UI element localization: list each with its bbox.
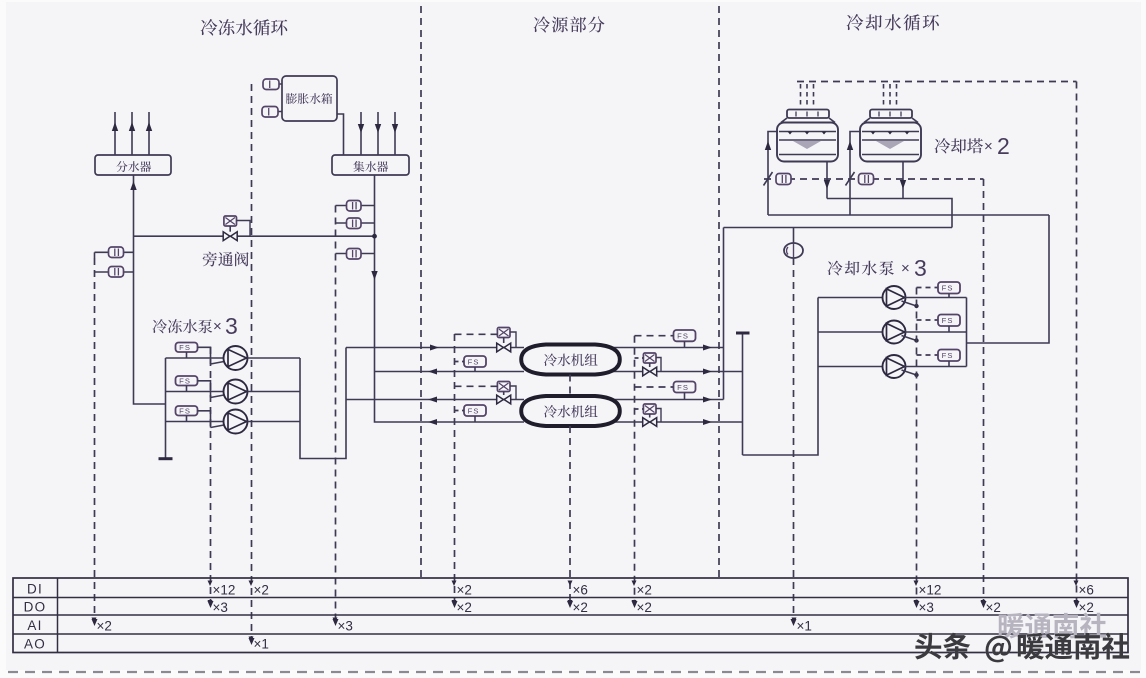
svg-text:×12: ×12 <box>213 583 236 598</box>
collector inlet line 1 <box>360 112 362 155</box>
CP1 wire tap diagonal <box>902 301 917 306</box>
tank level switch LS1 <box>263 79 279 90</box>
pump 2 suction line <box>166 391 224 393</box>
vertical B end cap <box>736 332 750 335</box>
distributor outlet arrow 3 <box>146 122 152 131</box>
tower 1 outlet arrow <box>824 180 830 189</box>
pressure sensor P1 <box>109 247 124 258</box>
cooling FS1 stub <box>948 294 950 298</box>
label 膨胀水箱 expansion tank <box>286 93 332 104</box>
tower return header <box>768 214 1049 216</box>
label 分水器 distributor <box>116 161 151 172</box>
distributor outlet line 2 <box>131 112 133 155</box>
svg-text:×2: ×2 <box>254 583 269 598</box>
chilled pump P2 <box>224 380 248 404</box>
tower basin line <box>779 154 836 156</box>
chiller control dashed drop x=570 <box>569 375 571 397</box>
tower neck <box>781 118 787 123</box>
svg-text:×: × <box>901 260 910 277</box>
pump 3 suction line <box>166 421 224 423</box>
FS2 wire tap to pump <box>211 395 225 398</box>
FS3 sensing wire <box>198 411 211 428</box>
label 集水器 collector <box>353 161 388 172</box>
riser 1 crossing tick <box>764 172 773 186</box>
cooling flow switch FS2 <box>938 315 960 327</box>
pressure sensor stub 2 <box>95 271 134 273</box>
cooling FS3 stub <box>948 361 950 367</box>
arrow into DO row for column 454 <box>452 601 458 608</box>
chilled pump P1 <box>224 346 248 370</box>
svg-text:×2: ×2 <box>986 600 1001 615</box>
FS1R stub <box>684 341 686 347</box>
DI count x6 (col 570) <box>568 581 573 587</box>
tower 2 riser <box>850 132 861 216</box>
arrow into AI row for column 793 <box>791 619 797 626</box>
FS1 sensing wire <box>198 347 211 364</box>
FS3 wire tap to pump <box>211 425 225 428</box>
svg-text:×1: ×1 <box>797 619 812 634</box>
svg-text:FS: FS <box>942 351 954 360</box>
tower 1 riser <box>768 132 778 216</box>
expansion tank box <box>282 76 337 121</box>
svg-text:FS: FS <box>677 332 689 341</box>
label 冷却塔 cooling towers <box>935 138 983 153</box>
tower fill line <box>862 131 919 133</box>
flow arrow row3 left <box>428 397 437 403</box>
svg-text:×2: ×2 <box>573 600 588 615</box>
pump 1 discharge line <box>248 357 301 359</box>
FS2L stub <box>474 416 476 422</box>
svg-text:×3: ×3 <box>338 619 353 634</box>
svg-text:×2: ×2 <box>637 583 652 598</box>
collector sensor T1 <box>347 201 362 212</box>
cooling FS2 stub <box>948 326 950 332</box>
tower outlet header <box>827 199 952 228</box>
cooling pump 1 suction stub <box>818 297 883 299</box>
AI count x3 (col 335) <box>333 618 338 624</box>
svg-text:×: × <box>984 138 993 155</box>
label 冷却水泵 cooling water pumps <box>828 261 894 276</box>
fan control dashed drop x=1076 <box>1076 82 1078 605</box>
CP3 wire node <box>914 373 918 377</box>
IO table label column divider <box>57 578 59 653</box>
label 旁通阀 bypass valve <box>203 252 249 267</box>
tower valve dashed line y=179 <box>764 178 984 180</box>
AO count x1 (col 251) <box>249 637 254 643</box>
chiller unit 2 冷水机组 <box>521 396 620 426</box>
IO table row line 2 <box>13 614 1128 616</box>
cooling pump 2 suction stub <box>818 331 883 333</box>
distributor outlet arrow 1 <box>112 122 118 131</box>
DO count x2 (col 454) <box>452 600 457 606</box>
arrow into AI row for column 335 <box>333 619 339 626</box>
tank drain pipe to collector <box>337 114 344 155</box>
flow arrow row1 left <box>430 345 439 351</box>
tower water level <box>779 139 836 141</box>
FS1 stub <box>186 352 188 358</box>
svg-text:DO: DO <box>24 600 47 615</box>
collector inlet line 3 <box>394 112 396 155</box>
svg-text:FS: FS <box>677 383 689 392</box>
svg-text:AO: AO <box>24 637 46 652</box>
cooling FS3 dashed stub <box>917 354 939 356</box>
FS2 stub <box>186 386 188 392</box>
pump 2 discharge line <box>248 391 301 393</box>
DO count x2 (col 983) <box>981 600 986 606</box>
supply riser up arrow <box>130 181 136 190</box>
IO table row line 3 <box>13 633 1128 635</box>
condenser supply vertical A <box>723 228 725 400</box>
right control bracket dashed vertical x=634 <box>634 336 636 604</box>
cooling discharge header <box>966 298 968 367</box>
return riser pipe <box>375 175 525 422</box>
svg-text:AI: AI <box>27 618 42 633</box>
DI count x12 (col 210) <box>208 581 213 587</box>
collector box 集水器 <box>332 155 409 175</box>
flow arrow row1 right <box>703 345 712 351</box>
cooling flow switch FS1 <box>938 282 960 294</box>
svg-text:×2: ×2 <box>97 619 112 634</box>
flow arrow row4 left <box>428 419 437 425</box>
distributor box 分水器 <box>95 155 171 175</box>
return riser down arrow <box>371 271 377 280</box>
DI count x6 (col 1076) <box>1074 581 1079 587</box>
pump discharge header <box>300 348 346 459</box>
condenser return vertical B <box>742 333 744 455</box>
chiller1 inlet valve V1L <box>497 328 510 338</box>
arrow into DO row for column 916 <box>914 601 920 608</box>
title: cold source section 冷源部分 <box>534 16 605 32</box>
distributor outlet line 1 <box>114 112 116 155</box>
collector inlet arrow 1 <box>358 124 364 133</box>
dashed stub to FS2L <box>455 410 465 412</box>
label 冷水机组 chiller 1 <box>544 353 598 366</box>
collector inlet line 2 <box>377 112 379 155</box>
control dashed drop x=916 (cooling pumps) <box>916 288 918 605</box>
svg-text:3: 3 <box>914 255 927 281</box>
watermark 头条@暖通南社 <box>915 633 1129 663</box>
arrow into DO row for column 210 <box>208 601 214 608</box>
tower 2 riser up arrow <box>847 141 853 150</box>
bypass pipe <box>134 235 375 237</box>
tower valve MV2 <box>859 174 874 185</box>
tower neck <box>864 118 870 123</box>
tower1 fan dashed wires <box>800 84 802 108</box>
supply riser pipe <box>134 175 166 404</box>
condenser valve V1R <box>643 353 656 363</box>
svg-text:FS: FS <box>179 343 191 352</box>
cooling tower fan lid <box>870 110 912 119</box>
control dashed drop x=335 (collector sensors) <box>335 206 337 623</box>
pump suction header <box>165 358 167 458</box>
flow switch FS3 (chilled) <box>176 406 198 416</box>
riser 2 crossing tick <box>846 172 855 186</box>
tower valve dashed drop x=983 <box>983 179 985 604</box>
section divider dashed line right <box>718 6 720 578</box>
tank lower port stub <box>262 111 282 113</box>
flow switch FS1R <box>674 330 696 341</box>
FS3 stub <box>186 416 188 422</box>
pump 1 suction line <box>166 357 224 359</box>
collector sensor T3 <box>347 249 362 260</box>
dashed wire to FS2R <box>635 386 674 388</box>
arrow into AI row for column 94 <box>92 619 98 626</box>
DO count x2 (col 1076) <box>1074 600 1079 606</box>
cooling discharge outlet run <box>967 215 1050 343</box>
arrow into DO row for column 1076 <box>1074 601 1080 608</box>
control dashed drop x=94 (pressure sensors) <box>94 258 96 622</box>
condenser valve V2R <box>643 404 656 414</box>
control dashed drop x=793 (temp sensor) <box>793 258 795 622</box>
cooling pump CP3 <box>883 355 906 378</box>
CP1 wire node <box>914 304 918 308</box>
collector sensor T2 <box>347 218 362 229</box>
DO count x2 (col 570) <box>568 600 573 606</box>
pressure sensor stub 1 <box>95 251 134 253</box>
flow arrow row2 left <box>428 369 437 375</box>
FS2 sensing wire <box>198 381 211 398</box>
temperature sensor stub <box>793 228 795 244</box>
DO count x2 (col 634) <box>632 600 637 606</box>
dashed stub to V1R <box>635 357 644 359</box>
flow arrow row2 right <box>703 369 712 375</box>
CP3 wire tap diagonal <box>902 370 917 375</box>
cooling FS1 dashed stub <box>917 287 939 289</box>
cooling flow switch FS3 <box>938 350 960 362</box>
cooling tower fan lid <box>787 110 829 119</box>
dashed wire to FS1R <box>635 335 674 337</box>
AI count x2 (col 94) <box>92 618 97 624</box>
collector inlet arrow 2 <box>375 124 381 133</box>
svg-text:×6: ×6 <box>573 583 588 598</box>
DI count x2 (col 251) <box>249 581 254 587</box>
svg-text:FS: FS <box>942 316 954 325</box>
flow switch FS2R <box>674 382 696 393</box>
svg-text:×2: ×2 <box>637 600 652 615</box>
cooling tower body <box>860 123 921 162</box>
condenser supply header <box>724 227 953 229</box>
tower fill line <box>779 131 836 133</box>
svg-text:DI: DI <box>27 582 43 597</box>
pump suction header end cap <box>159 457 173 460</box>
pump 3 discharge line <box>248 421 301 423</box>
flow arrow row3 right <box>703 397 712 403</box>
cooling pump 3 suction stub <box>818 366 883 368</box>
tower 2 outlet pipe <box>902 162 904 199</box>
distributor outlet arrow 2 <box>129 122 135 131</box>
collector sensor stub 2 <box>336 222 375 224</box>
svg-text:FS: FS <box>179 407 191 416</box>
svg-text:×3: ×3 <box>919 600 934 615</box>
chiller2 inlet valve V2L <box>497 382 510 392</box>
tower valve MV1 <box>776 174 791 185</box>
control dashed drop x=210 (chilled pumps) <box>210 347 212 604</box>
label 冷水机组 chiller 2 <box>544 405 598 418</box>
flow switch FS1L <box>464 356 486 367</box>
return branch to chiller 1 <box>375 371 525 373</box>
cooling pump CP2 <box>883 321 906 344</box>
dashed stub to V2R <box>635 408 644 410</box>
arrow into AO row for column 251 <box>249 638 255 645</box>
DO count x3 (col 210) <box>208 600 213 606</box>
condenser row3 pipe <box>610 399 724 401</box>
watermark ghost 暖通南社 <box>999 612 1106 638</box>
CP2 wire tap diagonal <box>902 336 917 341</box>
svg-text:×12: ×12 <box>919 583 942 598</box>
DI count x2 (col 634) <box>632 581 637 587</box>
flow arrow row4 right <box>703 419 712 425</box>
collector sensor stub 3 <box>336 253 375 255</box>
cooling FS2 dashed stub <box>917 319 939 321</box>
dashed wire to V1L <box>455 333 498 335</box>
pressure sensor connecting elbow <box>94 252 96 258</box>
cooling pump 2 discharge <box>905 331 967 333</box>
fan control dashed line y=81 <box>797 81 1077 83</box>
IO table row line 1 <box>13 597 1128 599</box>
DI count x2 (col 454) <box>452 581 457 587</box>
svg-text:FS: FS <box>468 357 480 366</box>
svg-text:2: 2 <box>997 133 1010 159</box>
AI count x1 (col 793) <box>792 618 797 624</box>
bypass junction node <box>372 234 377 239</box>
FS1L stub <box>474 367 476 372</box>
title: cooling water circuit 冷却水循环 <box>847 14 939 30</box>
IO table outer frame <box>13 578 1128 653</box>
FS2R stub <box>684 393 686 400</box>
svg-text:×6: ×6 <box>1079 583 1094 598</box>
tank upper port stub <box>263 83 282 85</box>
cooling pump 1 discharge <box>905 297 967 299</box>
dashed stub to FS1L <box>455 361 465 363</box>
distributor outlet line 3 <box>148 112 150 155</box>
DI count x12 (col 916) <box>914 581 919 587</box>
condenser return bottom run <box>743 298 819 456</box>
cooling pump CP1 <box>883 286 906 309</box>
svg-text:FS: FS <box>468 406 480 415</box>
section divider dashed line left <box>420 6 422 578</box>
dashed wire to V2L <box>455 385 498 387</box>
left control bracket dashed vertical x=454 <box>454 334 456 604</box>
bypass control valve 旁通阀 <box>224 216 237 226</box>
CP2 wire node <box>914 338 918 342</box>
title: chilled water circuit 冷冻水循环 <box>201 19 288 35</box>
condenser row4 pipe <box>610 421 743 423</box>
pressure sensor P2 <box>109 267 124 278</box>
svg-text:×2: ×2 <box>457 583 472 598</box>
chilled pump P3 <box>224 410 248 434</box>
svg-text:×3: ×3 <box>213 600 228 615</box>
arrow into DO row for column 983 <box>981 601 987 608</box>
DO count x3 (col 916) <box>914 600 919 606</box>
cooling pump 3 discharge <box>905 366 967 368</box>
svg-text:3: 3 <box>225 313 238 339</box>
tower 1 outlet pipe <box>826 162 828 199</box>
svg-text:FS: FS <box>179 377 191 386</box>
bottom scan edge dashed line <box>8 671 1140 673</box>
tank level switch LS2 <box>262 107 278 118</box>
control dashed drop x=251 (tank/bypass column) <box>251 84 253 641</box>
tower 1 riser up arrow <box>765 141 771 150</box>
svg-text:×: × <box>213 318 222 335</box>
flow switch FS1 (chilled) <box>176 343 198 353</box>
tower2 fan dashed wires <box>883 84 885 108</box>
flow switch FS2 (chilled) <box>176 376 198 386</box>
temperature sensor T <box>784 243 803 258</box>
label 冷冻水泵 chilled water pumps <box>153 319 213 333</box>
arrow into DO row for column 634 <box>632 601 638 608</box>
arrow into DO row for column 570 <box>567 601 573 608</box>
chiller 1 supply branch <box>346 347 524 349</box>
svg-text:FS: FS <box>942 284 954 293</box>
svg-text:×2: ×2 <box>457 600 472 615</box>
condenser row2 pipe <box>610 371 743 373</box>
svg-text:×1: ×1 <box>254 637 269 652</box>
tower water level <box>862 139 919 141</box>
chiller unit 1 冷水机组 <box>521 345 620 375</box>
cooling tower body <box>777 123 838 162</box>
collector sensor stub 1 <box>336 205 375 207</box>
condenser row1 pipe <box>610 347 724 349</box>
collector inlet arrow 3 <box>392 124 398 133</box>
chiller 2 supply branch <box>346 399 524 401</box>
FS1 wire tap to pump <box>211 362 225 365</box>
tower basin line <box>862 154 919 156</box>
tower 2 outlet arrow <box>900 180 906 189</box>
flow switch FS2L <box>464 405 486 416</box>
